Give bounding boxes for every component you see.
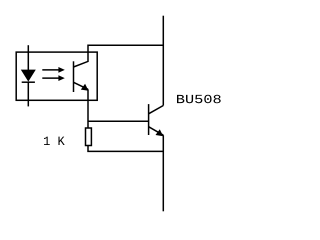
light arrow 2 — [42, 77, 59, 79]
resistor R1 body — [86, 128, 92, 146]
phototransistor Q1 base bar — [73, 61, 75, 92]
wire resistor bottom to emitter rail — [88, 146, 163, 152]
label 1 K (resistor value) — [44, 137, 50, 145]
wire collector lead (top) — [162, 16, 164, 106]
transistor Q2 emitter — [149, 127, 164, 136]
wire emitter lead (bottom) — [162, 135, 164, 211]
LED D1 cathode wire — [27, 82, 29, 106]
transistor Q2 BU508 base bar — [148, 104, 150, 135]
optocoupler U1 body — [16, 52, 97, 100]
LED D1 cathode bar — [22, 81, 35, 83]
transistor Q2 collector — [149, 106, 164, 114]
wire emitter to resistor node — [87, 89, 89, 128]
wire base node to BU508 base — [88, 120, 149, 122]
LED D1 triangle — [22, 70, 35, 81]
phototransistor Q1 collector wire — [74, 45, 164, 67]
label BU508 — [177, 95, 184, 103]
LED D1 anode wire — [27, 45, 29, 70]
phototransistor Q1 emitter — [74, 82, 89, 89]
light arrow 1 — [42, 69, 59, 71]
